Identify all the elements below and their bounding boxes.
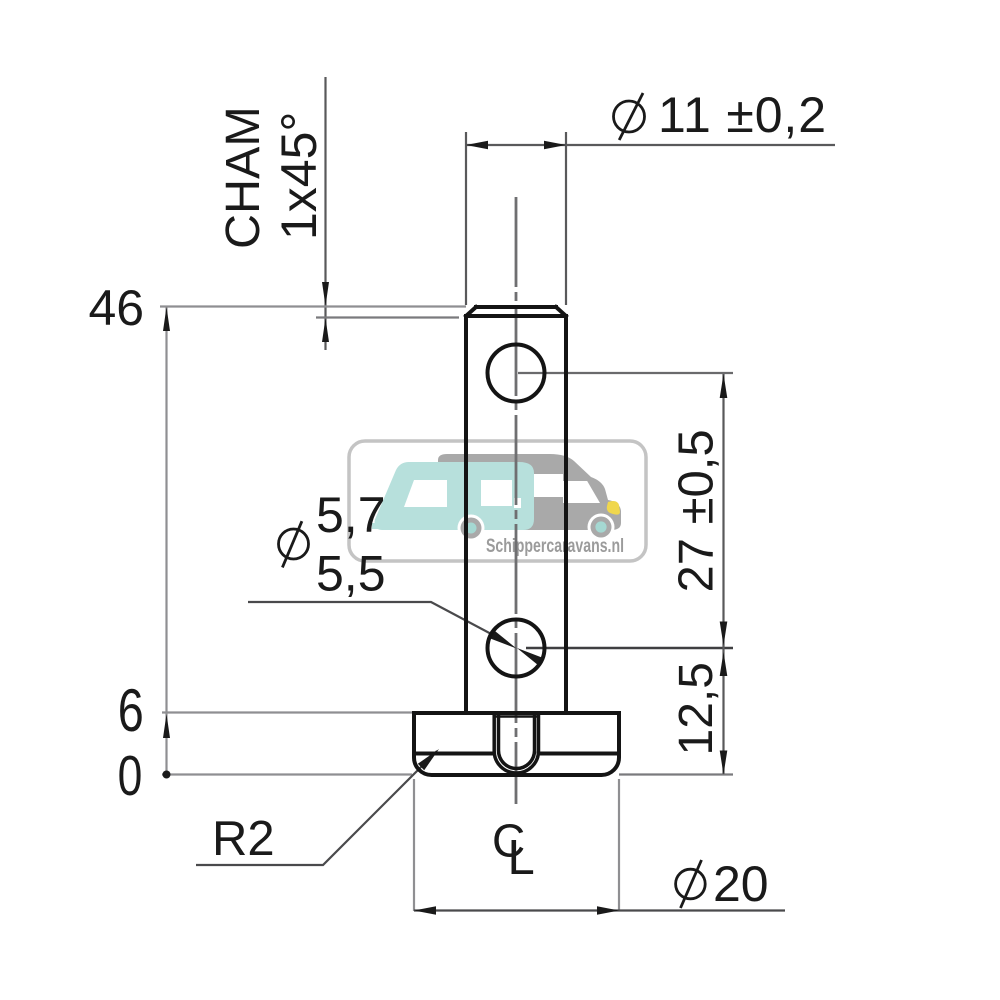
watermark caravan window 1 [404,480,447,507]
pin body outline [466,307,566,713]
CHAM arrow down [322,282,329,306]
arrow 12,5 top [720,652,728,676]
dimension line 27 and 12,5 [722,374,724,774]
flange slot top edge [494,715,538,718]
svg-text:46: 46 [89,280,145,336]
centerline symbol CL [492,815,535,886]
CHAM leader vertical [324,77,326,350]
arrow 27 top [720,374,728,398]
svg-text:1x45°: 1x45° [271,112,327,240]
watermark van headlight [607,501,620,515]
arrow 12,5 bottom [720,751,728,775]
pin top chamfer [476,305,556,309]
CHAM arrow up [322,318,329,342]
leader dia 5,7 5,5 [248,602,495,636]
watermark van body [438,454,621,530]
arrow bottom hole outward [517,648,544,666]
label CHAM 1x45 [216,106,327,249]
extension line dia20 left [413,779,415,911]
arrow 27 bottom [720,622,728,646]
svg-text:5,5: 5,5 [316,546,386,602]
dimension line dia11 [466,144,835,146]
dimension line 46 [160,305,466,307]
svg-text:R2: R2 [212,812,275,866]
extension line top hole [518,372,733,374]
bottom hole [488,620,545,677]
label dia20 [676,856,769,912]
label dia 5,7 5,5 [279,487,386,602]
arrow 6 [163,714,170,738]
arrow dia11 left [466,141,488,150]
dimension line 6 [162,711,414,713]
svg-text:5,7: 5,7 [316,487,386,543]
watermark van windshield [563,481,601,503]
dimension line 0 [162,773,412,775]
flange slot inner [499,713,535,769]
watermark caravan [372,462,534,530]
arrow leader to bottom hole center [490,631,517,649]
watermark caravan window 2 [481,480,512,506]
watermark logo box [349,441,646,561]
origin dot [163,771,171,779]
arrow dia20 left [414,906,436,915]
flange slot outer [494,713,538,773]
arrow R2 [418,749,439,770]
svg-text:Schippercaravans.nl: Schippercaravans.nl [486,536,624,557]
label dia11 [614,87,827,143]
watermark van A-pillar [586,479,608,503]
leader R2 [196,751,437,865]
extension line dia11 left [465,132,467,305]
svg-text:L: L [508,831,535,885]
dimension line dia20 [414,909,785,911]
chamfer depth line [316,316,459,318]
top hole [488,345,545,402]
extension line dia20 right [618,779,620,911]
arrow dia11 right [544,141,566,150]
svg-text:12,5: 12,5 [670,662,723,755]
ordinate baseline vertical [165,307,167,775]
flange edge tangent line [416,752,616,756]
centerline [515,197,518,804]
watermark caravan door notch [514,498,521,508]
extension line bottom hole [526,647,733,649]
arrow dia20 right [597,906,619,915]
svg-text:20: 20 [713,856,769,912]
extension line base right [619,773,733,775]
arrow 46 [163,307,170,331]
watermark van wheel [588,514,615,541]
svg-text:27 ±0,5: 27 ±0,5 [670,429,724,592]
extension line dia11 right [565,132,567,305]
svg-text:11 ±0,2: 11 ±0,2 [658,87,826,143]
watermark caravan wheel [458,515,485,542]
svg-text:6: 6 [118,677,144,744]
flange outline [414,713,619,775]
watermark van window band [446,474,563,497]
svg-text:CHAM: CHAM [216,106,270,249]
svg-text:0: 0 [118,744,143,808]
